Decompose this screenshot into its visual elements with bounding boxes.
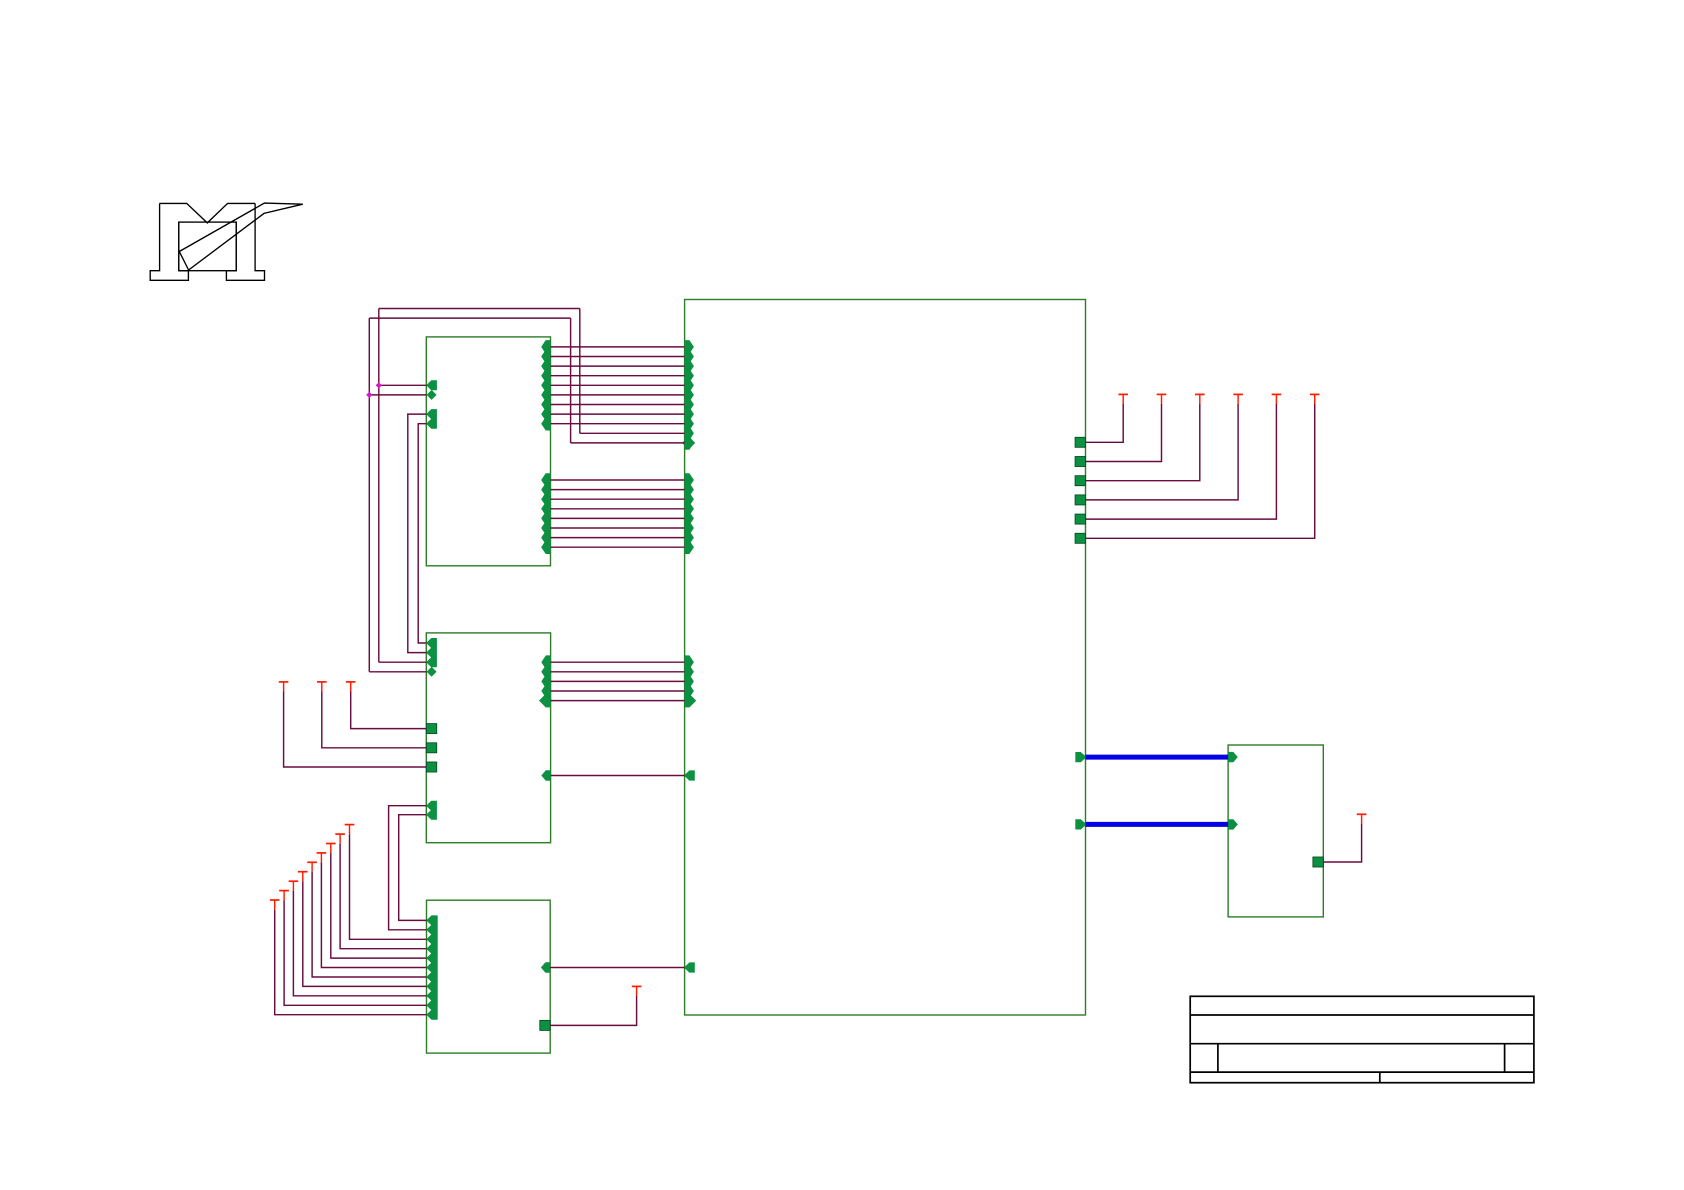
wire bus2 A-U row 6 (551, 527, 685, 529)
sheet U left pin column (top group) (685, 340, 694, 450)
wire stair 9 to C (350, 834, 427, 939)
sheet C right square pin (540, 1020, 550, 1030)
wire T to B square3 (284, 692, 427, 768)
wire bus B-U row 2 (551, 671, 685, 673)
wire bus2 A-U row 8 (551, 546, 685, 548)
wire bus B-U row 5 (551, 700, 685, 702)
wire bus A-U row 7 (551, 404, 685, 406)
wire net3 top horizontal (379, 308, 580, 310)
logo letter M outline (150, 203, 264, 280)
wire bus B-U row 3 (551, 680, 685, 682)
power T D (1357, 814, 1367, 824)
sheet A left pin 4 (426, 419, 437, 429)
sheet C left pin column (426, 915, 437, 1019)
wire A pin3 to B pin2 (408, 414, 427, 652)
power T B3 (279, 682, 289, 692)
wire bus A-U row 2 (551, 356, 685, 358)
sheet U right bus pin 2 (1075, 819, 1086, 829)
wire stair 1 to C (275, 910, 427, 1015)
sheet B left lower pin 2 (426, 810, 437, 820)
sheet A (top-left block) (426, 337, 550, 566)
sheet B left lower pin 1 (426, 801, 437, 811)
power T stair 8 (335, 834, 345, 844)
wire T to B square2 (322, 692, 427, 748)
wire stair 6 to C (321, 863, 426, 968)
wire bus2 A-U row 7 (551, 537, 685, 539)
sheet D (right block) (1228, 745, 1323, 917)
wire U square 3 to T (1086, 404, 1200, 481)
sheet B left pin group (426, 638, 437, 667)
bus blue 2 (1086, 822, 1229, 827)
wire net3 branch to A pin1 (379, 384, 427, 386)
wire bus A-U row 8 (551, 413, 685, 415)
sheet A right pin column (lower group) (541, 473, 550, 554)
junction net3 (376, 382, 382, 388)
wire net3 to B pin3 (379, 661, 427, 663)
wire net3 right vertical (579, 309, 581, 434)
wire bus B-U row 1 (551, 661, 685, 663)
wire U square 6 to T (1086, 404, 1315, 538)
sheet D right square pin (1313, 857, 1323, 867)
logo swoosh (179, 203, 302, 270)
bus blue 1 (1086, 755, 1229, 760)
sheet U left lone pin b (684, 962, 695, 972)
power T C (632, 986, 642, 996)
sheet B (middle-left block) (426, 633, 550, 843)
power T stair 7 (326, 844, 336, 854)
wire C square to T (550, 996, 636, 1025)
power T B2 (317, 682, 327, 692)
power T U1 (1118, 394, 1128, 404)
logo center rectangle (179, 222, 236, 271)
wire bus B-U row 4 (551, 690, 685, 692)
sheet D left bus pin 2 (1228, 819, 1238, 829)
wire stair 7 to C (331, 853, 427, 958)
power T stair 3 (289, 881, 299, 891)
wire bus2 A-U row 5 (551, 517, 685, 519)
sheet B right lone pin (541, 770, 550, 780)
wire bus A-U row 4 (551, 375, 685, 377)
wire B low1 to C row2 (389, 806, 427, 930)
wire bus A-U row 6 (551, 394, 685, 396)
sheet U right square pin 5 (1075, 514, 1085, 524)
wire A pin4 to B pin1 (418, 424, 426, 643)
wire net4 to B pin4 (369, 671, 426, 673)
wire bus A-U row 9 (551, 423, 685, 425)
sheet B left pin 4 (diamond) (427, 667, 437, 677)
sheet U right square pin 4 (1075, 495, 1085, 505)
sheet U right square pin 2 (1075, 457, 1085, 467)
wire bus2 A-U row 2 (551, 489, 685, 491)
sheet U left lone pin a (684, 770, 695, 780)
power T stair 4 (298, 872, 308, 882)
sheet B right pin diamond (539, 694, 552, 707)
wire bus2 A-U row 4 (551, 508, 685, 510)
wire stair 8 to C (340, 844, 426, 949)
power T stair 1 (270, 900, 280, 910)
sheet U right square pin 1 (1075, 437, 1085, 447)
power T U6 (1310, 394, 1320, 404)
power T U2 (1157, 394, 1167, 404)
sheet U left top group diamond (682, 436, 695, 449)
wire net4 left vertical (368, 318, 370, 672)
title block (1190, 996, 1534, 1082)
wire stair 3 to C (293, 891, 426, 996)
sheet B right pin column (541, 655, 550, 707)
wire D square to T (1323, 824, 1361, 862)
wire net4 branch to A pin2 (369, 394, 426, 396)
wire stair 4 to C (303, 881, 427, 986)
wire bus A-U row 1 (551, 346, 685, 348)
wire B low2 to C row1 (399, 815, 427, 921)
sheet U right bus pin 1 (1075, 752, 1086, 762)
wire U square 2 to T (1086, 404, 1162, 462)
sheet U left pin column (third group) (685, 655, 694, 707)
power T stair 9 (345, 825, 355, 835)
wire net4 to U row11 (571, 442, 685, 444)
wire C-U lone (550, 967, 684, 969)
wire net4 right vertical (570, 318, 572, 443)
junction net4 (366, 392, 372, 398)
power T B1 (346, 682, 356, 692)
power T stair 2 (279, 891, 289, 901)
wire U square 1 to T (1086, 404, 1124, 442)
power T U5 (1272, 394, 1282, 404)
sheet U left pin column (second group) (685, 473, 694, 554)
wire stair 2 to C (284, 900, 426, 1005)
sheet B left square pin 2 (426, 743, 436, 753)
wire B-U lone (551, 775, 685, 777)
power T stair 5 (307, 862, 317, 872)
wire T to B square1 (351, 692, 427, 729)
wire bus A-U row 5 (551, 384, 685, 386)
sheet A left pin 3 (426, 409, 437, 419)
power T stair 6 (317, 853, 327, 863)
wire bus2 A-U row 1 (551, 479, 685, 481)
sheet A right pin column (upper group) (541, 340, 550, 430)
wire U square 4 to T (1086, 404, 1239, 500)
sheet B left square pin 1 (426, 724, 436, 734)
sheet U right square pin 6 (1075, 533, 1085, 543)
sheet C (bottom-left block) (427, 900, 551, 1053)
sheet U (central block) (685, 300, 1086, 1016)
wire net3 to U row10 (580, 432, 685, 434)
wire bus2 A-U row 3 (551, 498, 685, 500)
sheet D left bus pin 1 (1228, 752, 1238, 762)
sheet C right pin (541, 962, 550, 972)
sheet A left pin 2 (diamond) (427, 390, 437, 400)
power T U4 (1233, 394, 1243, 404)
sheet B left square pin 3 (426, 762, 436, 772)
sheet U left third group diamond (683, 694, 696, 707)
sheet U right square pin 3 (1075, 476, 1085, 486)
sheet A left pin 1 (426, 380, 437, 390)
wire stair 5 to C (312, 872, 426, 977)
wire bus A-U row 3 (551, 365, 685, 367)
wire net4 top horizontal (369, 317, 570, 319)
power T U3 (1195, 394, 1205, 404)
wire net3 left vertical (378, 309, 380, 663)
wire U square 5 to T (1086, 404, 1277, 519)
